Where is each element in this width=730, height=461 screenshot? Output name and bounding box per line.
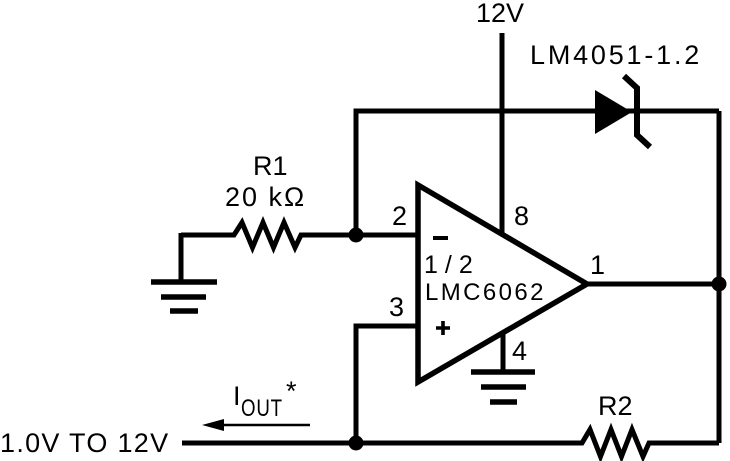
svg-text:3: 3: [389, 292, 404, 322]
svg-text:R1: R1: [253, 151, 288, 181]
ground (left): [151, 282, 217, 311]
wire: input run with resistor R1 zigzag, ground to pin 2: [181, 223, 418, 248]
wire: pin 3 stub and drop to bottom rail: [356, 326, 418, 443]
svg-text:*: *: [286, 376, 297, 406]
svg-text:I: I: [233, 381, 241, 411]
svg-text:20 kΩ: 20 kΩ: [225, 182, 306, 212]
zener diode cathode bar with bent ends: [624, 76, 650, 147]
wire: pin 4 drop to ground: [501, 333, 506, 372]
svg-text:8: 8: [514, 201, 529, 231]
svg-text:OUT: OUT: [241, 395, 283, 422]
svg-text:1.0V TO 12V: 1.0V TO 12V: [0, 428, 169, 458]
op-amp plus sign: [436, 321, 450, 335]
wire: output pin 1 to right rail: [587, 282, 719, 287]
op-amp U1 triangle 1/2 LMC6062: [418, 185, 587, 382]
zener diode D1 LM4051-1.2: anode triangle: [595, 90, 632, 134]
node: junction dot at output / right rail: [712, 277, 727, 292]
wire: right vertical rail: [717, 111, 722, 443]
svg-text:LMC6062: LMC6062: [425, 279, 546, 306]
svg-text:LM4051-1.2: LM4051-1.2: [530, 40, 702, 70]
svg-text:4: 4: [512, 336, 527, 366]
node: junction dot at inverting input: [349, 228, 364, 243]
svg-text:1: 1: [590, 250, 605, 280]
arrow: Iout direction: [214, 424, 310, 427]
ground (op-amp pin 4): [471, 372, 535, 402]
svg-text:R2: R2: [598, 391, 633, 421]
svg-text:12V: 12V: [476, 0, 524, 28]
wire: 12V supply drop to pin 8: [500, 33, 505, 237]
wire: top feedback rail from node above pin2 to right rail: [356, 111, 719, 235]
node: junction dot at pin3/bottom rail: [349, 436, 364, 451]
svg-text:2: 2: [392, 201, 407, 231]
svg-text:1/2: 1/2: [424, 251, 480, 279]
op-amp minus sign: [433, 236, 448, 240]
wire: bottom rail with resistor R2 zigzag: [182, 430, 719, 457]
wire: left ground drop: [179, 233, 184, 282]
